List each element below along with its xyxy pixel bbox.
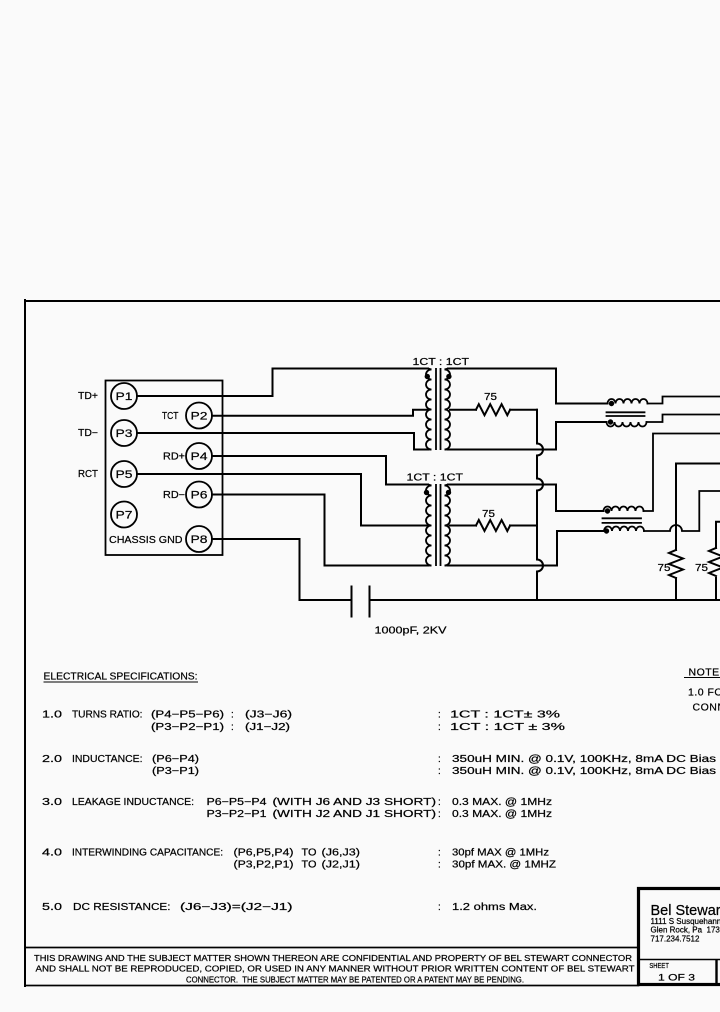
L2 core bbox=[603, 517, 642, 519]
svg-text:75: 75 bbox=[482, 509, 496, 520]
capacitor C1 left plate bbox=[351, 587, 353, 617]
svg-text:INDUCTANCE:: INDUCTANCE: bbox=[72, 754, 143, 765]
svg-text:75: 75 bbox=[484, 392, 498, 403]
wire T1 secondary top to choke L1 top bbox=[448, 369, 608, 404]
spec row 1.0 turns ratio bbox=[42, 710, 565, 733]
wire P3 to T1 primary bottom bbox=[137, 433, 428, 450]
svg-text:(P3−P1): (P3−P1) bbox=[152, 766, 199, 777]
svg-text:RD−: RD− bbox=[163, 490, 185, 501]
svg-text:1CT : 1CT: 1CT : 1CT bbox=[413, 357, 470, 368]
wire T1 secondary CT to resistor R1 bbox=[450, 409, 476, 411]
svg-text:4.0: 4.0 bbox=[42, 848, 63, 859]
L2 bottom dot bbox=[604, 528, 609, 533]
bottom common wire bbox=[370, 599, 720, 601]
svg-text:1 OF 3: 1 OF 3 bbox=[658, 973, 695, 984]
svg-text:P2: P2 bbox=[191, 411, 208, 423]
T2 primary bottom tail bbox=[428, 565, 432, 567]
svg-text:1.2 ohms Max.: 1.2 ohms Max. bbox=[452, 902, 537, 913]
svg-text:30pf MAX. @ 1MHZ: 30pf MAX. @ 1MHZ bbox=[452, 860, 556, 871]
svg-text::: : bbox=[438, 754, 441, 765]
svg-text:(J3−J6): (J3−J6) bbox=[245, 710, 292, 721]
svg-text:1.0 FOR: 1.0 FOR bbox=[688, 687, 720, 699]
svg-text::: : bbox=[231, 710, 234, 721]
wire T2 secondary bottom to choke L2 bottom bbox=[448, 531, 604, 566]
spec row 5.0 dc resistance bbox=[42, 902, 537, 913]
pin P4 bbox=[186, 443, 212, 469]
svg-text:THIS DRAWING AND THE SUBJECT M: THIS DRAWING AND THE SUBJECT MATTER SHOW… bbox=[34, 953, 632, 963]
L2 bottom coil output with hop over R3 bbox=[644, 491, 720, 531]
svg-text:RCT: RCT bbox=[78, 469, 98, 480]
svg-text:CONNE: CONNE bbox=[693, 702, 720, 714]
svg-text:(J6,J3): (J6,J3) bbox=[322, 848, 361, 859]
svg-text:P4: P4 bbox=[191, 451, 208, 463]
svg-text:717.234.7512: 717.234.7512 bbox=[651, 934, 700, 943]
wire T2 secondary CT to resistor R2 bbox=[450, 525, 477, 527]
L1 bottom coil output bbox=[647, 415, 720, 423]
T1 primary top tail bbox=[428, 369, 432, 370]
resistor R2 75 bbox=[476, 520, 510, 531]
choke L1 bbox=[607, 397, 720, 427]
T2 core bbox=[435, 484, 437, 566]
svg-text:ELECTRICAL SPECIFICATIONS:: ELECTRICAL SPECIFICATIONS: bbox=[44, 672, 198, 683]
L1 top dot bbox=[609, 401, 614, 406]
pin P6 bbox=[186, 482, 212, 508]
pin P8 bbox=[186, 526, 212, 552]
svg-text::: : bbox=[438, 902, 441, 913]
T2 secondary dot bbox=[446, 490, 451, 495]
svg-text:1CT : 1CT± 3%: 1CT : 1CT± 3% bbox=[450, 710, 560, 721]
T2 primary dot bbox=[424, 490, 429, 495]
svg-text:(P6,P5,P4): (P6,P5,P4) bbox=[234, 848, 294, 859]
svg-text:(P6−P4): (P6−P4) bbox=[152, 754, 199, 765]
svg-text:P8: P8 bbox=[191, 534, 208, 546]
svg-text:(P4−P5−P6): (P4−P5−P6) bbox=[151, 710, 224, 721]
wire R1 to node bbox=[510, 409, 537, 411]
wire R2 to node bbox=[510, 525, 537, 527]
svg-text:5.0: 5.0 bbox=[42, 902, 63, 913]
svg-text:SHEET: SHEET bbox=[649, 963, 669, 970]
L2 top dot bbox=[605, 508, 610, 513]
transformer T1 bbox=[426, 368, 450, 450]
svg-text:(J2,J1): (J2,J1) bbox=[322, 860, 361, 871]
svg-text:2.0: 2.0 bbox=[42, 754, 63, 765]
svg-text:1111 S Susquehanna Trail: 1111 S Susquehanna Trail bbox=[651, 917, 720, 926]
svg-text:1.0: 1.0 bbox=[42, 710, 63, 721]
title block border bbox=[639, 889, 720, 985]
capacitor C1 right plate bbox=[369, 587, 371, 617]
wire P8 to capacitor C1 bbox=[212, 539, 351, 600]
pin P3 bbox=[111, 420, 137, 446]
svg-text:TD−: TD− bbox=[78, 428, 98, 439]
svg-text:NOTES:: NOTES: bbox=[689, 667, 720, 679]
L2 top coil bbox=[604, 507, 644, 512]
disclaimer box bbox=[25, 948, 639, 986]
svg-text:AND SHALL NOT BE REPRODUCED, C: AND SHALL NOT BE REPRODUCED, COPIED, OR … bbox=[36, 964, 635, 974]
svg-text:350uH MIN. @ 0.1V, 100KHz, 8mA: 350uH MIN. @ 0.1V, 100KHz, 8mA DC Bias bbox=[452, 754, 716, 765]
resistor R1 75 bbox=[476, 404, 510, 415]
svg-text::: : bbox=[231, 722, 234, 733]
T2 secondary top tail bbox=[445, 485, 449, 486]
T2 secondary winding bbox=[445, 486, 451, 566]
svg-text:TURNS RATIO:: TURNS RATIO: bbox=[72, 710, 143, 721]
svg-text::: : bbox=[438, 797, 441, 808]
transformer T2 bbox=[426, 484, 450, 566]
svg-text:350uH MIN. @ 0.1V, 100KHz, 8mA: 350uH MIN. @ 0.1V, 100KHz, 8mA DC Bias bbox=[452, 766, 716, 777]
svg-text:P6: P6 bbox=[191, 490, 208, 502]
svg-text:(WITH J6 AND J3 SHORT): (WITH J6 AND J3 SHORT) bbox=[273, 797, 437, 808]
L1 top coil output bbox=[648, 397, 720, 404]
svg-text:(P3,P2,P1): (P3,P2,P1) bbox=[234, 860, 294, 871]
svg-text:CONNECTOR. THE SUBJECT MATTER: CONNECTOR. THE SUBJECT MATTER MAY BE PAT… bbox=[186, 974, 524, 984]
svg-text:(P3−P2−P1): (P3−P2−P1) bbox=[151, 722, 224, 733]
svg-text:1000pF, 2KV: 1000pF, 2KV bbox=[375, 626, 447, 637]
svg-text:3.0: 3.0 bbox=[42, 797, 63, 808]
svg-text::: : bbox=[438, 766, 441, 777]
svg-text:INTERWINDING CAPACITANCE:: INTERWINDING CAPACITANCE: bbox=[72, 848, 223, 859]
L2 top coil output bbox=[644, 434, 720, 512]
svg-text:TO: TO bbox=[302, 860, 317, 871]
node vertical with hops bbox=[537, 410, 543, 600]
svg-text:(J1−J2): (J1−J2) bbox=[245, 722, 290, 733]
spec row 4.0 interwinding capacitance bbox=[42, 848, 556, 871]
svg-text:P6−P5−P4: P6−P5−P4 bbox=[207, 797, 268, 808]
T2 primary top tail bbox=[428, 485, 432, 486]
svg-text:TO: TO bbox=[302, 848, 317, 859]
wire P2 TCT to T1 primary center tap bbox=[212, 410, 427, 416]
L1 bottom coil bbox=[607, 422, 647, 427]
wire P6 RD- to T2 primary bottom bbox=[212, 495, 428, 566]
T1 primary bottom tail bbox=[428, 449, 432, 451]
svg-text:30pf MAX @ 1MHz: 30pf MAX @ 1MHz bbox=[452, 848, 549, 859]
svg-text:1CT : 1CT: 1CT : 1CT bbox=[407, 473, 464, 484]
svg-text:(WITH J2 AND J1 SHORT): (WITH J2 AND J1 SHORT) bbox=[273, 809, 437, 820]
T1 secondary bottom tail bbox=[445, 449, 449, 451]
pin P2 bbox=[186, 403, 212, 429]
wire P5 RCT to T2 primary center tap bbox=[137, 474, 427, 526]
svg-text:P1: P1 bbox=[116, 391, 133, 403]
frame border left bbox=[24, 300, 26, 986]
heading underline bbox=[44, 681, 199, 683]
svg-text::: : bbox=[438, 710, 441, 721]
svg-text:Glen Rock, Pa 17327: Glen Rock, Pa 17327 bbox=[651, 926, 720, 935]
pin P1 bbox=[111, 383, 137, 409]
svg-text:TD+: TD+ bbox=[78, 391, 98, 402]
svg-text:TCT: TCT bbox=[162, 411, 179, 422]
T1 secondary winding bbox=[445, 370, 451, 450]
title block cell divider vertical bbox=[715, 960, 717, 985]
svg-text:P3−P2−P1: P3−P2−P1 bbox=[207, 809, 268, 820]
svg-text::: : bbox=[438, 848, 441, 859]
pin P5 bbox=[111, 461, 137, 487]
L1 core bbox=[607, 411, 645, 413]
svg-text:DC RESISTANCE:: DC RESISTANCE: bbox=[73, 902, 171, 913]
L1 bottom dot bbox=[608, 419, 613, 424]
svg-text:1CT : 1CT ± 3%: 1CT : 1CT ± 3% bbox=[450, 722, 565, 733]
resistor R4 75 vertical bbox=[709, 522, 720, 600]
svg-text:P3: P3 bbox=[116, 428, 133, 440]
pin P7 bbox=[111, 502, 137, 528]
frame border top bbox=[25, 300, 720, 302]
wire P1 to T1 primary top bbox=[137, 369, 428, 397]
L1 top coil bbox=[608, 399, 648, 404]
svg-text:P7: P7 bbox=[116, 510, 133, 522]
wire P4 RD+ to T2 primary top bbox=[212, 456, 428, 485]
svg-text:75: 75 bbox=[695, 563, 709, 574]
svg-text:RD+: RD+ bbox=[163, 452, 185, 463]
connector box bbox=[106, 381, 223, 556]
T1 secondary top tail bbox=[445, 369, 449, 370]
T1 primary dot bbox=[425, 374, 430, 379]
resistor R3 75 vertical bbox=[669, 464, 720, 601]
wire T1 secondary bottom to choke L1 bottom bbox=[448, 422, 607, 450]
notes underline bbox=[684, 677, 720, 679]
svg-text:CHASSIS GND: CHASSIS GND bbox=[109, 535, 183, 546]
T1 secondary dot bbox=[446, 374, 451, 379]
T2 secondary bottom tail bbox=[445, 565, 449, 567]
svg-text::: : bbox=[438, 722, 441, 733]
spec row 2.0 inductance bbox=[42, 754, 716, 777]
svg-text:0.3 MAX. @ 1MHz: 0.3 MAX. @ 1MHz bbox=[452, 809, 552, 820]
svg-text:P5: P5 bbox=[116, 469, 133, 481]
svg-text:LEAKAGE INDUCTANCE:: LEAKAGE INDUCTANCE: bbox=[72, 797, 194, 808]
choke L2 bbox=[603, 434, 720, 532]
svg-text:(J6−J3)=(J2−J1): (J6−J3)=(J2−J1) bbox=[180, 902, 293, 913]
T1 primary winding bbox=[426, 370, 432, 450]
svg-text:0.3 MAX. @ 1MHz: 0.3 MAX. @ 1MHz bbox=[452, 797, 552, 808]
T1 core bbox=[435, 368, 437, 450]
svg-text:75: 75 bbox=[658, 563, 672, 574]
title block sheet divider horizontal bbox=[640, 959, 720, 961]
wire T2 secondary top to choke L2 top bbox=[448, 485, 604, 512]
svg-text::: : bbox=[438, 860, 441, 871]
spec row 3.0 leakage inductance bbox=[42, 797, 552, 820]
T2 primary winding bbox=[426, 486, 432, 566]
svg-text::: : bbox=[438, 809, 441, 820]
L2 bottom coil bbox=[604, 527, 644, 532]
